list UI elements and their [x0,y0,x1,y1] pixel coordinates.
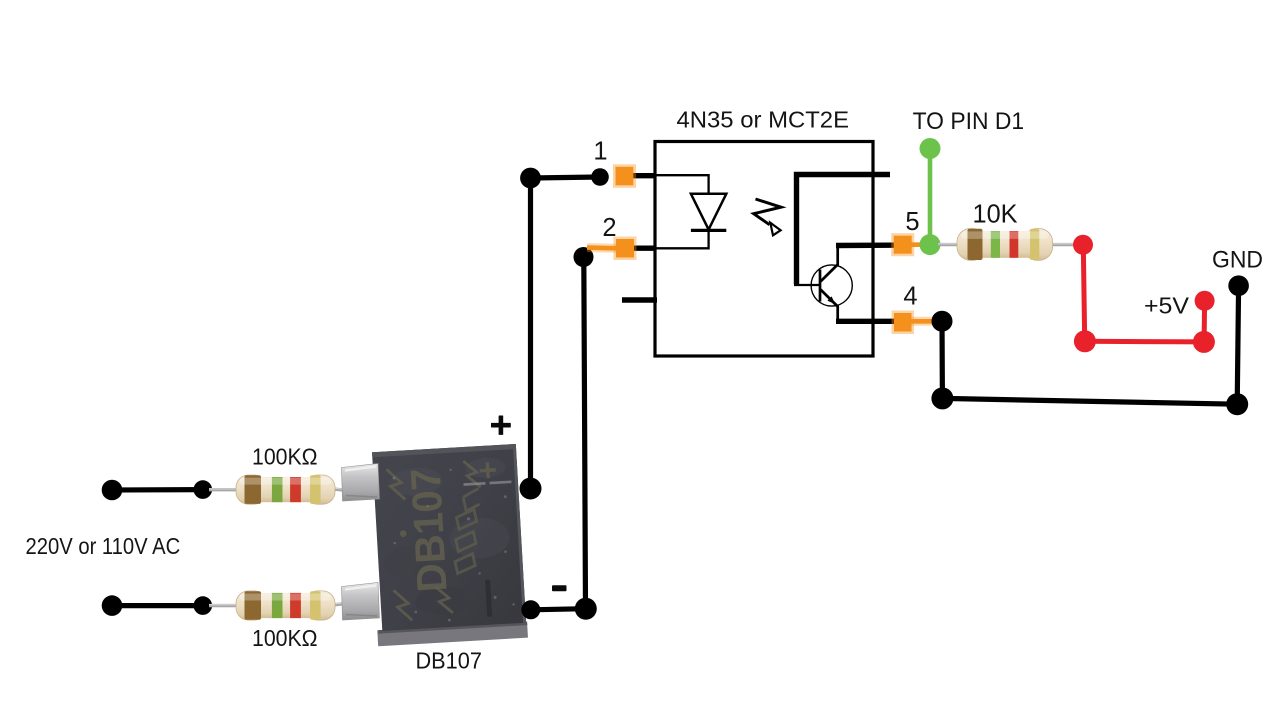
bridge rectifier DB107 lead tab top [342,464,380,502]
chip marking logo [451,488,484,573]
wire: U1 pin6 base line [797,175,891,285]
node: DB107 - output [521,600,540,619]
node: red junction right of R3 [1073,235,1093,255]
svg-text:4: 4 [903,283,917,311]
svg-text:5: 5 [905,208,919,236]
bridge rectifier DB107 body [367,444,528,646]
node: +5V terminal [1195,291,1215,311]
node: pin2 terminal [574,247,594,267]
chip marking minus groove [485,580,492,617]
svg-text:DB107: DB107 [402,467,456,593]
wire: GND vertical [1237,286,1238,405]
svg-text:DB107: DB107 [416,648,482,674]
node: pin4 terminal [932,311,953,332]
chip marking plus [479,462,496,479]
node: emitter net corner [931,387,953,409]
svg-text:100KΩ: 100KΩ [252,625,318,651]
label + output [491,416,511,435]
node: pin2 wire bottom junction [575,598,597,620]
svg-text:2: 2 [602,214,616,242]
svg-text:+5V: +5V [1144,292,1190,318]
svg-text:220V or 110V AC: 220V or 110V AC [26,533,181,559]
light emission arrow [754,199,781,235]
node: green terminal to pin D1 [920,138,941,159]
node: pin1 junction [520,168,541,189]
node: red corner left [1074,330,1096,352]
node: red corner right [1193,331,1215,353]
label - output [552,585,567,591]
wire: pin4 down [939,321,945,398]
resistor R2 100K body [236,591,335,620]
chip speckles [389,465,515,624]
node: AC bottom-right terminal [194,596,213,615]
pin 5 pad [891,233,914,256]
resistor R3 10K leads [938,242,1077,246]
wire: red vertical [1083,245,1084,341]
resistor R2 100K bottom: leads [209,601,357,606]
wire: DB107 - link to pin2 wire [531,609,586,610]
wire: emitter net horizontal [942,398,1237,404]
wire: red horizontal [1085,339,1204,345]
svg-text:TO PIN D1: TO PIN D1 [913,108,1025,135]
wire: green to pin D1 [928,149,933,245]
pin 4 pad [892,311,915,335]
wire: pin1 junction to pin1 terminal [531,177,601,178]
wire: red to +5V [1202,301,1208,342]
svg-text:GND: GND [1212,247,1263,274]
chip marking dash line [463,481,511,486]
node: AC top-left terminal [102,480,123,501]
wire: U1 pin1 internal to LED anode [656,175,709,194]
wire: base lead to transistor [794,284,820,286]
wire: pin2 pad to IC [631,245,657,250]
wire: pin1 pad to IC [630,173,657,178]
phototransistor Q1 [811,247,852,321]
optocoupler U1 body [655,142,873,357]
pin 3 stub [622,297,657,302]
LED D1 anode triangle [691,194,726,230]
wire: AC input bottom [112,603,203,608]
svg-text:100KΩ: 100KΩ [252,443,318,469]
wire: U1 pin2 internal from LED cathode [656,230,709,248]
wire: pin2 vertical [584,257,586,609]
wire: pin2 orange stub [587,243,617,253]
node: DB107 + output [520,478,542,500]
node: pin1 terminal [591,168,609,186]
wire: AC input top [112,487,203,493]
node: GND corner [1226,393,1248,415]
node: AC top-right terminal [194,480,213,499]
resistor R1 100K top: leads [209,488,357,491]
LED D1 cathode bar [691,229,726,232]
node: AC bottom-left terminal [102,595,123,616]
wire: collector to pin5 [836,242,895,248]
node: green junction at pin5 [920,234,941,255]
wire: emitter to pin4 [836,319,895,324]
pin 2 pad [614,237,637,261]
resistor R3 10K body [957,229,1053,261]
svg-text:4N35 or MCT2E: 4N35 or MCT2E [677,107,850,133]
wire: pin4 orange stub [911,317,936,326]
resistor R1 100K body [236,475,335,504]
svg-text:10K: 10K [973,199,1019,229]
svg-text:1: 1 [593,138,607,166]
node: GND terminal [1228,275,1249,296]
pin 1 pad [613,164,636,188]
wire: pin5 orange stub [912,242,925,247]
wire: DB107 + to pin1 junction (left vertical) [528,178,533,489]
bridge rectifier DB107 lead tab bottom [342,583,380,621]
